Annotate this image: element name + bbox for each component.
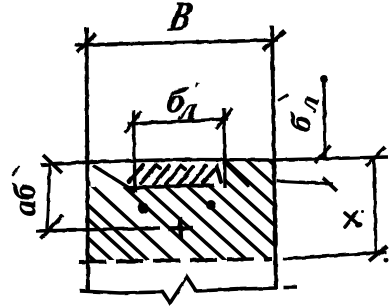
label x speck [362,211,365,214]
dimension line delta'l (right side, vertical) [324,78,325,158]
dot at top of dimension delta'l [320,75,328,83]
single hatch stroke across notch [94,166,134,191]
tick bottom of dimension a'b [41,215,63,239]
tick top of dimension x [366,147,385,166]
label b'l [163,79,203,126]
label a'b rotated [6,182,42,216]
section bottom dashed edge [79,259,272,262]
dimension line b'l [128,119,228,124]
prime mark of label a'b [13,167,19,175]
white mask over mortar strip [124,162,225,187]
label x handwritten [345,212,359,227]
tick right of dimension b'l [216,108,232,129]
tick right of dimension B [263,31,285,50]
right extension line of dimension b'l [224,108,225,188]
tick top of dimension delta'l [315,146,331,163]
tick bottom of dimension x [369,246,387,261]
label x tail blob [355,222,363,228]
tick top of dimension a'b [43,155,62,173]
dot at bottom right of dimension x [384,258,389,263]
dimension line a'b (left side, vertical) [47,160,50,229]
break line end dash [283,285,297,289]
section left edge / left extension line of dimension B [87,27,89,291]
tick bottom of dimension delta'l [323,178,337,191]
white mask over top-left notch [91,162,126,187]
bottom extension line of dimension x [283,252,386,259]
mortar strip bottom edge [126,185,214,188]
label delta'l rotated [283,91,326,135]
svg-text:аб: аб [6,182,42,216]
bottom extension line of dimension delta'l [277,181,333,184]
section top edge with left and right extension lines [41,157,388,165]
rebar dot right [206,200,216,210]
dimension line x (far right, vertical) [374,158,376,253]
prime mark of label delta'l [279,95,287,100]
mortar strip hatch marks [129,164,248,185]
left extension line of dimension b'l [134,110,136,192]
tick left of dimension B [77,34,96,52]
tick left of dimension b'l [125,111,141,133]
rebar dot left [138,203,149,214]
dimension line B [75,40,278,45]
bottom extension line of a'b / rebar axis line [36,228,160,231]
break line with zigzag [80,277,277,303]
centroid cross marker [168,226,193,231]
hatching of concrete section body [88,150,381,262]
section right edge / right extension line of dimension B [272,26,276,289]
